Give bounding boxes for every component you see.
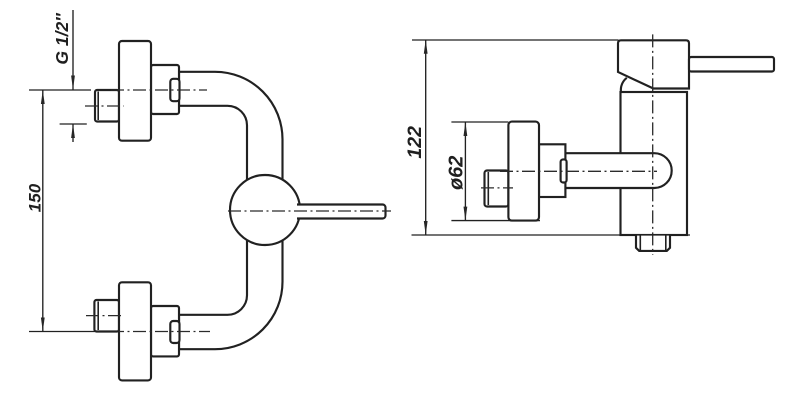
centerline: front upper nipple axis <box>85 105 124 107</box>
front view: lower eccentric nipple <box>94 300 119 332</box>
front view: lower nipple thread line <box>97 302 99 331</box>
arrowhead: dia62 bottom <box>464 207 468 221</box>
centerline: side wall nipple axis <box>481 187 513 189</box>
side view: outlet thread lines <box>639 235 641 251</box>
arrowhead: 150 bottom <box>41 318 45 332</box>
arrowhead: 150 top <box>41 90 45 104</box>
extension line: 150 bottom (y=331.5) <box>29 331 119 333</box>
centerline: side body vertical axis <box>652 34 654 255</box>
dimension line: 150 <box>42 90 44 332</box>
front view: S-pipe body (upper run, bends, vertical run, lower run) <box>179 72 283 349</box>
front view: upper nut tab <box>170 79 179 101</box>
side view: nut tab <box>561 159 567 182</box>
side view: handle head block <box>618 40 689 88</box>
side view: cartridge dome arc <box>621 78 627 92</box>
dimension line: G 1/2 lower leader <box>72 124 74 142</box>
side view: vertical body cylinder <box>621 92 688 235</box>
svg-text:122: 122 <box>404 126 426 159</box>
side view: wall flange disc <box>508 122 539 221</box>
extension line: dia62 bottom (y=220.6) <box>451 220 540 222</box>
front view: lower connection body <box>151 306 179 356</box>
side view: handle lever rod <box>689 57 774 72</box>
dimension line: 122 <box>425 40 427 235</box>
side view: wall eccentric nipple <box>485 171 509 207</box>
svg-text:ø62: ø62 <box>446 156 468 190</box>
arrowhead: dia62 top <box>464 122 468 136</box>
arrowhead: 122 top <box>424 40 428 54</box>
dimension line: dia62 <box>464 122 466 221</box>
front view: upper eccentric nipple <box>95 90 119 122</box>
centerline: front lower main axis <box>111 331 210 333</box>
front view: upper nipple thread line <box>97 92 99 121</box>
svg-text:150: 150 <box>26 183 45 212</box>
arrowhead: G 1/2 lower <box>71 124 75 138</box>
centerline: front handle axis <box>228 210 391 212</box>
front view: lower nut tab <box>170 321 179 343</box>
svg-text:G 1/2″: G 1/2″ <box>52 13 72 65</box>
front view: upper wall flange <box>119 41 151 141</box>
extension line: 150 top (y=90) <box>29 89 91 91</box>
side view: bottom outlet nipple <box>636 235 670 251</box>
arrowhead: 122 bottom <box>424 221 428 235</box>
centerline: front lower nipple axis <box>86 315 124 317</box>
centerlines <box>85 34 657 331</box>
centerline: side spout axis <box>500 170 657 172</box>
front view: lower wall flange <box>119 282 151 380</box>
extension tick: G 1/2 lower (y=124) <box>60 123 87 125</box>
side view: wall nipple thread line <box>487 172 489 205</box>
extension line: dia62 top (y=122) <box>451 121 508 123</box>
dimension line: G 1/2 upper leader <box>72 10 74 90</box>
extension line: 122 bottom (y=235) <box>412 234 691 236</box>
front view: mixer ball body <box>230 175 300 245</box>
front view: handle lever rod <box>297 205 386 219</box>
side view: spout pipe projection (stadium end) <box>565 153 671 188</box>
front view: upper connection body <box>151 65 179 114</box>
arrowhead: G 1/2 upper <box>71 76 75 90</box>
dimensions <box>29 10 690 332</box>
centerline: front upper main axis <box>111 89 207 91</box>
extension line: 122 top (y=39.8) <box>412 39 619 41</box>
side view: connection block <box>539 144 565 197</box>
